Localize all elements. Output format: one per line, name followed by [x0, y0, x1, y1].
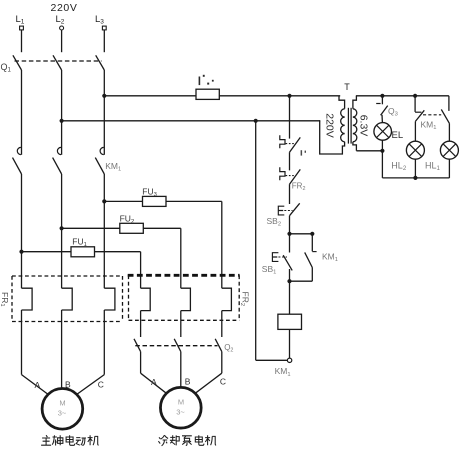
heater FR1 element pole 1: [22, 288, 33, 310]
label phase L2: [56, 14, 65, 26]
label M2 inside: [176, 398, 185, 417]
button SB2 blade: [290, 203, 300, 215]
node FU2 tap: [60, 226, 64, 230]
node control left-rail tap: [254, 119, 258, 123]
wire pole 2 KM1 to FR1: [61, 174, 63, 288]
switch Q2 blade pole 3: [215, 339, 222, 352]
wire FU2 drop: [180, 228, 182, 288]
label T: [344, 82, 350, 92]
heater FR1 element pole 2: [62, 288, 73, 310]
wire M1 phase C drop: [103, 322, 105, 375]
contact FR2 NC blade: [290, 169, 301, 184]
thermal relay FR1 enclosure: [12, 276, 123, 322]
label KM1 (lamp contacts): [421, 120, 437, 132]
label KM1 main contacts: [105, 161, 121, 173]
label M1 inside: [58, 399, 67, 418]
wire FR2 element 1 down: [140, 311, 142, 337]
label FU3: [142, 187, 157, 199]
contactor KM1 main blade pole 3: [95, 158, 104, 174]
wire M2 phase A diagonal: [141, 373, 167, 393]
wire FU3 right: [166, 200, 222, 202]
wire M1 phase C diagonal: [77, 375, 105, 395]
node EL branch: [380, 94, 384, 98]
svg-text:220V: 220V: [324, 113, 336, 138]
lamp HL2: [406, 141, 424, 159]
wire M2 phase C diagonal: [195, 373, 222, 393]
contact KM1 self-hold blade: [305, 252, 313, 267]
contact KM1 self-hold nub: [312, 251, 316, 253]
label phase L3: [95, 14, 104, 26]
wire KM1 aux to rejoin bar: [311, 268, 313, 282]
terminal L2: [60, 26, 64, 30]
label FR1: [0, 292, 10, 307]
heater FR2 element pole 3: [222, 288, 232, 310]
label KM1 coil: [275, 366, 291, 378]
wire FU3 drop: [221, 201, 223, 288]
svg-text:220V: 220V: [51, 2, 78, 14]
switch Q2 blade pole 1: [134, 339, 141, 352]
wire rejoin bar: [290, 280, 313, 282]
label FU1: [72, 236, 87, 248]
label M2 terminal C: [220, 377, 226, 387]
node FU1 tap: [19, 250, 23, 254]
wire FR2 to SB2: [289, 184, 291, 204]
wire EL branch top: [381, 96, 383, 105]
label M1 terminal B: [65, 380, 71, 390]
node control circuit feed: [287, 94, 291, 98]
wire lamp bottom rail: [382, 177, 449, 179]
heater FR2 element pole 1: [141, 288, 151, 310]
svg-text:3~: 3~: [176, 408, 185, 417]
wire branch right to KM1 aux: [311, 234, 313, 252]
wire FR2 element 2 down: [180, 311, 182, 337]
wire M1 phase A drop: [21, 322, 23, 375]
switch Q1 blade pole 2: [53, 55, 62, 70]
wire fuse to control node: [219, 95, 289, 97]
svg-text:A: A: [151, 377, 157, 387]
svg-text:EL: EL: [392, 130, 404, 141]
wire pole 3 KM1 to FR1: [103, 174, 105, 288]
wire control node to transformer: [290, 95, 341, 97]
wire pole 1 KM1 to FR1: [21, 174, 23, 288]
heater FR2 element pole 2: [181, 288, 191, 310]
transformer T secondary winding: [353, 96, 357, 151]
label Q3: [388, 106, 398, 118]
wire SB1 to rejoin bar: [289, 269, 291, 281]
label FR2: [239, 292, 250, 307]
contact FR2 NC release hook: [280, 167, 285, 180]
wire FU1 left: [22, 251, 72, 253]
wire to KM1 coil: [289, 281, 291, 314]
wire SB2 to branch node: [289, 216, 291, 234]
wire FU2 left: [62, 227, 120, 229]
heater FR1 element pole 3: [104, 288, 115, 310]
contactor KM1 main contact arc pole 2: [57, 147, 61, 154]
wire HL2 bottom: [414, 159, 416, 178]
svg-text:M: M: [59, 399, 65, 408]
node EL bottom junction: [380, 149, 384, 153]
node lamp rail junction: [413, 176, 417, 180]
svg-text:A: A: [35, 380, 41, 390]
label KM1 self-hold: [322, 251, 338, 263]
wire M1 phase A diagonal: [22, 375, 49, 395]
terminal L1: [20, 26, 24, 30]
wire FR2 element 3 down: [221, 311, 223, 337]
wire control feed to FR1 contact: [289, 96, 291, 139]
wire control left rail: [255, 121, 257, 360]
caption cooling pump motor (冷却泵电机): [158, 435, 216, 446]
wire HL1 bottom: [448, 159, 450, 178]
wire FR1 to FR2 contact: [289, 152, 291, 170]
wire FU2 right: [143, 227, 181, 229]
contact KM1 NC blade: [441, 109, 449, 123]
label HL2: [391, 160, 407, 172]
label SB1: [262, 264, 277, 276]
transformer T primary winding: [320, 96, 345, 154]
label FR2 contact: [292, 181, 306, 192]
contactor KM1 main blade pole 2: [53, 158, 62, 174]
terminal L3: [102, 26, 106, 30]
switch Q3 blade: [381, 106, 388, 116]
label M1 terminal C: [98, 380, 104, 390]
contact KM1 NO blade: [415, 110, 424, 121]
svg-text:B: B: [185, 377, 191, 387]
label EL: [392, 130, 404, 141]
fuse FU2 body: [120, 223, 144, 233]
wire Q3 to lamp EL: [381, 115, 383, 123]
switch Q1 blade pole 1: [13, 55, 22, 70]
wire L3 tap to fuse: [104, 95, 196, 97]
label 220V supply: [51, 2, 78, 14]
wire secondary bottom lead: [356, 150, 382, 152]
motor M1 body: [42, 389, 83, 430]
transformer T core: [348, 108, 351, 144]
node coil return terminal: [287, 358, 291, 362]
label phase L1: [16, 14, 25, 26]
wire KM1 coil to neutral node: [289, 329, 291, 358]
fuse FU3 body: [143, 196, 167, 206]
wire KM1 NC to lamp HL1: [448, 124, 450, 142]
wire M1 phase B drop: [61, 322, 63, 389]
label FR1 contact (faint marks): [301, 150, 306, 155]
wire EL to bottom node: [381, 140, 383, 151]
wire pole 2 Q1 to KM1: [61, 70, 63, 155]
wire pole 3 Q1 to KM1: [103, 70, 105, 155]
caption spindle motor (主轴电动机): [41, 435, 99, 445]
label FU4 (faint): [199, 75, 214, 85]
contact KM1 NO fixed nub: [415, 111, 421, 113]
fuse FU4 body: [196, 89, 219, 99]
svg-text:C: C: [98, 380, 104, 390]
label M2 terminal B: [185, 377, 191, 387]
wire KM1 NO to lamp HL2: [414, 121, 416, 141]
wire EL node to bottom rail: [381, 151, 383, 178]
button SB1 blade: [283, 255, 292, 270]
svg-text:C: C: [220, 377, 226, 387]
lamp HL1: [440, 141, 458, 159]
wire L2 tap horizontal: [62, 120, 321, 122]
switch Q1 linkage dashed: [15, 60, 102, 62]
label primary 220V: [324, 113, 336, 138]
label Q2: [224, 343, 233, 354]
wire L2 line end: [318, 120, 321, 122]
wire FU1 drop: [140, 252, 142, 289]
switch Q3 fixed tick: [376, 103, 380, 105]
button SB1 dashed link: [278, 256, 287, 258]
button SB2 actuator: [278, 206, 284, 215]
node start-branch right: [310, 232, 314, 236]
button SB1 actuator: [272, 253, 278, 262]
wire L1 drop to switch: [21, 30, 23, 52]
coil KM1 body: [278, 314, 302, 329]
node L3 control tap: [102, 94, 106, 98]
label M1 terminal A: [35, 380, 41, 390]
button SB2 dashed link: [284, 210, 292, 212]
contactor KM1 main contact arc pole 1: [17, 147, 21, 154]
lamp EL: [374, 123, 392, 141]
node start-branch left: [287, 232, 291, 236]
switch Q1 blade pole 3: [96, 55, 105, 70]
node FU3 tap: [102, 199, 106, 203]
label SB2: [267, 216, 282, 228]
wire L2 drop to switch: [61, 30, 63, 52]
wire FR1 element 1 down: [21, 310, 23, 322]
wire M2 phase A drop: [140, 352, 142, 374]
svg-text:M: M: [178, 398, 184, 407]
wire FR1 element 2 down: [61, 310, 63, 322]
wire HL2 branch top: [414, 96, 416, 112]
label HL1: [425, 160, 441, 172]
label Q1: [1, 62, 12, 74]
wire pole 1 Q1 to KM1: [21, 70, 23, 155]
wire left rail to coil return: [256, 359, 288, 361]
svg-text:3~: 3~: [58, 409, 67, 418]
switch Q2 blade pole 2: [174, 339, 181, 352]
svg-text:T: T: [344, 82, 350, 92]
wire HL1 branch top: [448, 96, 450, 111]
contact FR1 NC release hook: [280, 135, 285, 148]
node rejoin junction: [287, 279, 291, 283]
wire FR1 element 3 down: [103, 310, 105, 322]
node HL2 branch: [413, 94, 417, 98]
wire M2 phase C drop: [221, 352, 223, 374]
node L2 control tap: [60, 119, 64, 123]
label FU2: [120, 213, 135, 225]
wire M2 phase B drop: [180, 352, 182, 388]
contact KM1 linkage dashed: [423, 114, 441, 116]
motor M2 body: [160, 387, 201, 428]
wire FU1 right: [95, 251, 141, 253]
label M2 terminal A: [151, 377, 157, 387]
wire branch top bar: [290, 233, 313, 235]
contact FR2 NC dotted link: [286, 175, 295, 177]
wire FU3 left: [104, 200, 142, 202]
fuse FU1 body: [71, 247, 95, 257]
wire secondary top rail: [356, 95, 449, 97]
contact FR1 NC dotted link: [286, 143, 295, 145]
thermal relay FR2 enclosure: [128, 275, 240, 320]
contactor KM1 main contact arc pole 3: [100, 147, 104, 154]
switch Q2 linkage dashed: [135, 345, 217, 347]
contact FR1 NC blade: [290, 137, 301, 152]
label secondary 6.3V: [357, 115, 369, 137]
svg-text:6.3V: 6.3V: [357, 115, 369, 137]
wire L3 drop to switch: [103, 30, 105, 52]
wire branch left to SB1: [289, 234, 291, 253]
contactor KM1 main blade pole 1: [13, 158, 22, 174]
